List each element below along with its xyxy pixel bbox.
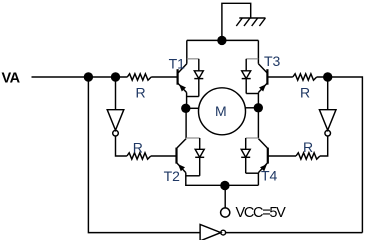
wire right inverter input drop [327,77,329,110]
svg-text:R: R [136,84,146,100]
svg-text:R: R [300,84,310,100]
diode D1 [187,59,204,97]
wire left drop from VA to feedback inverter [88,77,200,233]
wire top rail [187,39,259,41]
svg-text:VA: VA [2,71,21,87]
diode D3 [242,59,259,94]
transistor T4 [258,139,267,173]
resistor R1 [127,74,151,80]
node VA input wire [32,76,128,78]
wire T2 collector branch stub [186,137,200,139]
junction dot VA-2 [111,72,120,81]
wire T3 collector branch [257,40,259,63]
wire T2 emitter to bottom rail [186,173,259,186]
svg-text:VCC=5V: VCC=5V [236,205,287,221]
ground stem wire [222,3,251,40]
svg-text:R: R [303,139,313,155]
transistor T1 [178,64,187,93]
wire motor right lead [245,107,259,109]
resistor R2 [127,153,151,159]
wire resistor R1 lead to T1 base [151,76,177,78]
svg-text:T1: T1 [169,55,186,71]
svg-text:R: R [133,140,143,156]
svg-text:T2: T2 [164,168,181,184]
svg-text:T4: T4 [261,167,278,183]
inverter U2 (right, pointing down) [319,110,336,131]
wire U2 output down to R4 [320,136,328,156]
transistor T2 [177,139,187,173]
junction dot motor left [181,104,190,113]
wire T1 collector branch [186,40,188,63]
diode D4 [241,138,258,173]
resistor R4 [296,153,320,159]
junction dot VA-1 [84,72,93,81]
junction dot top rail [217,36,226,45]
junction dot motor right [254,103,263,112]
wire R3 to right edge [317,77,363,233]
wire U1 output down to R2 [116,136,127,156]
svg-text:T3: T3 [264,53,281,69]
junction dot right line [323,72,332,81]
wire T4 collector branch stub [246,137,259,139]
diode D2 [186,138,204,176]
wire T1 emitter to motor node [186,93,188,109]
wire T3 emitter to motor node [257,93,259,108]
inverter U3 (feedback, pointing right) [200,224,221,240]
wire R4 to T4 base [268,155,296,157]
wire left mid vertical to T2 collector [185,108,187,138]
motor M circle [199,88,246,135]
ground symbol [236,18,265,26]
wire T4 emitter to bottom rail [257,173,259,186]
wire right mid vertical to T4 collector [257,108,259,138]
wire VCC stem [224,185,226,208]
wire motor left lead [187,107,199,109]
svg-text:M: M [215,103,227,119]
junction dot bottom rail [220,181,229,190]
resistor R3 [293,74,317,80]
transistor T3 [258,64,267,93]
wire U3 output to right edge [226,232,363,234]
VCC terminal circle [221,208,230,217]
inverter U1 (left, pointing down) [107,110,124,131]
wire R2 to T2 base [151,155,177,157]
wire drop to left inverter U1 [115,77,117,110]
wire T3 base to R3 [267,76,292,78]
